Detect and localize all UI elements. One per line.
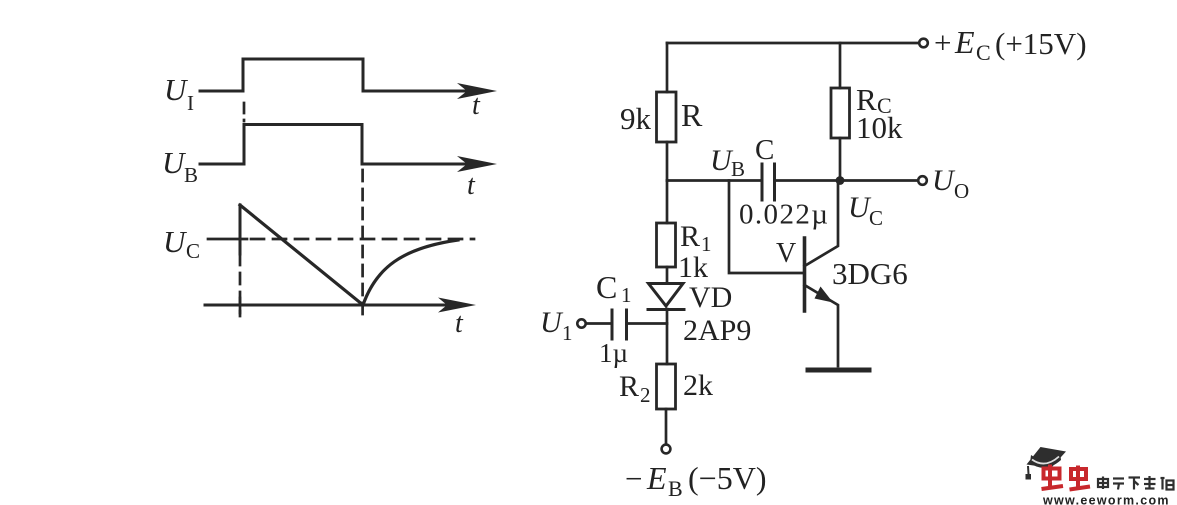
label U_1 [540, 306, 573, 345]
svg-text:VD: VD [689, 281, 732, 314]
svg-text:I: I [187, 91, 194, 115]
U_C steady level line (dashed) [251, 238, 474, 241]
dashed vertical at t0 [239, 254, 242, 316]
wire base loop [729, 181, 803, 274]
transistor V collector [805, 181, 839, 267]
waveform U_C trace [240, 205, 458, 305]
U_C jump edge [239, 205, 242, 254]
time axis U_C [205, 304, 464, 307]
capacitor C [762, 164, 775, 200]
svg-text:R: R [680, 220, 700, 253]
wire top rail [667, 42, 918, 45]
svg-text:0.022µ: 0.022µ [739, 199, 829, 231]
svg-text:B: B [184, 163, 198, 187]
svg-text:2k: 2k [683, 369, 713, 402]
wire C1 left [586, 322, 612, 325]
svg-text:2: 2 [640, 383, 651, 407]
label R_C [856, 82, 892, 118]
svg-text:C: C [755, 134, 774, 166]
svg-text:V: V [776, 238, 796, 269]
watermark cap crown [1030, 452, 1061, 468]
svg-text:3DG6: 3DG6 [832, 256, 908, 291]
watermark cap board [1027, 447, 1067, 468]
svg-text:t: t [467, 170, 476, 201]
svg-text:t: t [455, 308, 464, 339]
svg-text:t: t [472, 90, 481, 121]
terminal UO [918, 176, 927, 185]
resistor R [657, 92, 677, 142]
arrowhead U_C time axis [438, 298, 476, 313]
svg-text:+: + [934, 25, 951, 60]
svg-text:www.eeworm.com: www.eeworm.com [1042, 494, 1170, 505]
arrowhead U_B axis [457, 156, 497, 172]
svg-text:(+15V): (+15V) [995, 26, 1087, 61]
capacitor C1 [612, 310, 627, 339]
svg-text:B: B [731, 157, 745, 181]
wire output row right [775, 179, 918, 182]
svg-text:R: R [619, 370, 639, 403]
label -E_B(-5V) [625, 460, 766, 501]
svg-text:1: 1 [621, 283, 632, 307]
label C_1 [596, 269, 632, 307]
label U_I [164, 72, 194, 115]
dashed edge at t0 between U_I and U_B [243, 103, 246, 121]
svg-text:U: U [540, 306, 564, 339]
waveform U_I trace [200, 59, 485, 91]
ground [808, 368, 869, 373]
label U_B node [710, 144, 745, 181]
watermark tassel [1027, 466, 1030, 474]
label U_O [932, 164, 969, 203]
resistor R1 [657, 223, 676, 267]
junction dot node UC [836, 176, 845, 185]
svg-text:B: B [668, 476, 683, 501]
U_C steady level line (solid lead) [208, 238, 247, 241]
svg-text:(−5V): (−5V) [688, 460, 766, 496]
watermark cap stripe [1032, 457, 1059, 464]
label +E_C(+15V) [934, 24, 1087, 65]
svg-text:C: C [869, 206, 883, 230]
watermark cn text dianzi xiazai zhan [1098, 476, 1174, 490]
label U_C node [848, 191, 883, 230]
svg-text:9k: 9k [620, 101, 652, 136]
wire R top [666, 43, 669, 92]
resistor RC [831, 88, 850, 138]
svg-text:R: R [681, 97, 703, 133]
tick at t0 on time axis [239, 298, 242, 313]
label U_B [162, 145, 198, 187]
transistor V base bar [803, 238, 807, 311]
svg-text:U: U [932, 164, 956, 197]
svg-text:C: C [186, 239, 200, 263]
label U_C [163, 224, 200, 263]
svg-text:U: U [163, 224, 188, 259]
svg-text:1µ: 1µ [599, 338, 628, 368]
terminal +EC [919, 39, 928, 48]
wire output row left [667, 179, 761, 182]
wire RC bottom [839, 138, 842, 181]
arrowhead U_I axis [457, 83, 497, 99]
dashed vertical at t1 [361, 170, 364, 316]
watermark chongchong char1 [1042, 465, 1064, 490]
svg-text:1: 1 [562, 321, 573, 345]
wire R1 to diode [666, 267, 669, 283]
watermark chongchong char2 [1070, 466, 1091, 490]
label R_2 [619, 370, 651, 407]
svg-text:E: E [646, 460, 667, 496]
transistor V emitter [805, 285, 839, 366]
waveform U_B trace [200, 125, 485, 165]
diode VD [648, 284, 684, 310]
emitter arrowhead [815, 287, 834, 303]
svg-text:O: O [954, 179, 969, 203]
wire node to R1 [666, 181, 669, 224]
svg-text:C: C [596, 269, 617, 305]
wire R bottom [666, 142, 669, 181]
terminal -EB [662, 445, 671, 454]
svg-text:−: − [625, 461, 642, 496]
svg-text:U: U [164, 72, 189, 107]
terminal U1 [577, 319, 585, 327]
svg-text:C: C [976, 40, 991, 65]
wire C1 right [627, 322, 668, 325]
wire R2 to terminal [665, 409, 668, 444]
svg-text:10k: 10k [856, 110, 903, 145]
wire diode to R2 [666, 309, 669, 364]
svg-text:1k: 1k [678, 251, 708, 284]
wire RC top [839, 43, 842, 88]
svg-text:E: E [954, 24, 975, 60]
label R_1 [680, 220, 712, 256]
resistor R2 [657, 364, 676, 409]
svg-text:2AP9: 2AP9 [683, 314, 751, 347]
